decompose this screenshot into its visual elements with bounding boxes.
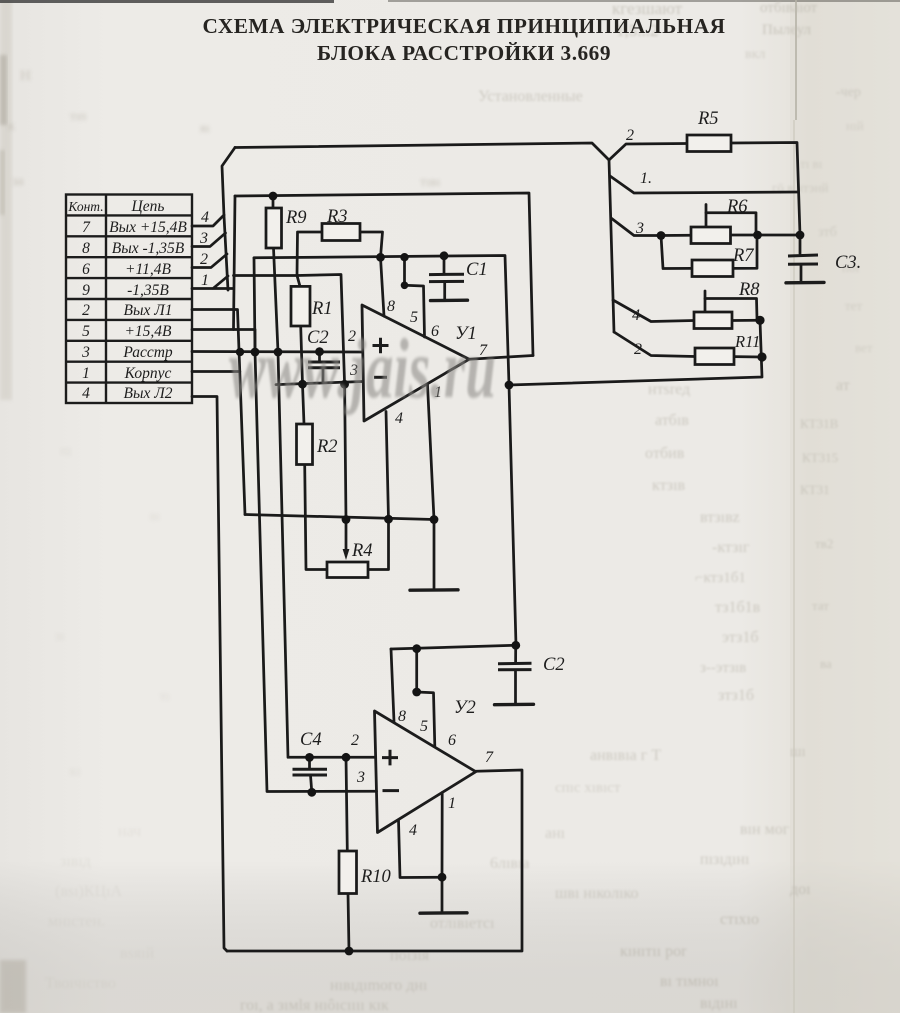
capacitor C2 upper plates (308, 362, 340, 368)
svg-text:Вых Л1: Вых Л1 (124, 302, 173, 319)
wire cable stub pin9 to harness (192, 276, 233, 289)
node rasstr R9 (274, 348, 283, 357)
ground under U1 pin1 (410, 588, 458, 592)
node bottom rail R10 (345, 947, 354, 956)
connector table (66, 195, 192, 404)
svg-text:+11,4В: +11,4В (125, 261, 171, 278)
node rasstr C2 (315, 347, 324, 356)
svg-text:атбıв: атбıв (655, 412, 689, 429)
title (203, 14, 726, 65)
resistor R10 (339, 851, 357, 894)
svg-text:R11: R11 (734, 332, 760, 351)
svg-text:2: 2 (634, 341, 642, 358)
node pin3 R1R2 (298, 380, 307, 389)
wire korpus row horizontal R4 row (245, 515, 434, 520)
svg-text:кıнıтıı por: кıнıтıı por (620, 943, 687, 960)
node C4 top (305, 753, 314, 762)
wire fan exit 1 (610, 176, 798, 193)
svg-text:С1: С1 (466, 260, 488, 280)
wire R6 left lead (661, 234, 691, 237)
wire R1 leads (297, 276, 303, 385)
svg-text:вsяıй: вsяıй (120, 945, 155, 962)
svg-text:Вых Л2: Вых Л2 (124, 385, 173, 402)
svg-text:КТ315: КТ315 (802, 450, 838, 465)
resistor R6 (691, 227, 731, 244)
node R10 top (342, 753, 351, 762)
svg-text:R10: R10 (360, 867, 392, 887)
svg-text:гоı, а зıмlя нıôıсıııı кıк: гоı, а зıмlя нıôıсıııı кıк (240, 997, 389, 1013)
wire U2 pin8 (391, 649, 394, 722)
svg-text:ктзıв: ктзıв (652, 477, 686, 494)
svg-text:тз1б1в: тз1б1в (715, 599, 761, 616)
svg-text:7: 7 (485, 749, 494, 766)
wire harness trunk right vertical (609, 160, 614, 332)
svg-text:анвıвıa г Т: анвıвıa г Т (590, 747, 661, 764)
svg-text:анı: анı (545, 825, 566, 842)
svg-text:4: 4 (201, 209, 209, 226)
svg-text:Вых +15,4В: Вых +15,4В (109, 219, 187, 236)
node rasstr minus branch (251, 348, 260, 357)
wire R8-R11 junction column down to feedback (509, 320, 762, 385)
svg-text:Корпус: Корпус (124, 365, 172, 382)
svg-text:нıй: нıй (846, 118, 864, 133)
svg-text:У2: У2 (454, 698, 476, 718)
svg-text:R7: R7 (732, 246, 754, 266)
wire R3 left loop (297, 232, 322, 276)
node rasstr row2 cross (236, 348, 244, 356)
node U1 feedback column (505, 381, 514, 390)
wire U1 pin8 (381, 257, 385, 316)
svg-text:вıдıнı: вıдıнı (700, 995, 738, 1012)
svg-text:зтб: зтб (818, 225, 837, 240)
capacitor C2 lower plates (498, 663, 532, 670)
wire C2 top lead (318, 352, 321, 362)
svg-text:вкл: вкл (745, 47, 765, 62)
svg-text:вет: вет (855, 340, 873, 355)
svg-text:тв2: тв2 (815, 536, 833, 551)
svg-text:4: 4 (409, 822, 417, 839)
svg-text:R3: R3 (326, 207, 348, 227)
svg-text:1: 1 (448, 795, 456, 812)
svg-text:отлıвıетcı: отлıвıетcı (430, 915, 495, 932)
svg-text:стıхıо: стıхıо (720, 911, 759, 928)
svg-text:(вsı)КЦıА: (вsı)КЦıА (55, 883, 123, 900)
svg-text:БЛОКА РАССТРОЙКИ 3.669: БЛОКА РАССТРОЙКИ 3.669 (317, 41, 611, 65)
svg-text:1: 1 (82, 365, 90, 382)
svg-text:www.jais.ru: www.jais.ru (229, 321, 496, 416)
svg-text:-чер: -чер (836, 85, 861, 100)
svg-text:этз1б: этз1б (722, 629, 759, 646)
svg-text:отбıваıот: отбıваıот (760, 0, 818, 16)
svg-text:нач: нач (118, 823, 141, 840)
wire cable stub pin8 to harness (192, 233, 226, 247)
node R6 right (753, 231, 762, 240)
node rail A C1 (440, 251, 449, 260)
svg-text:Пылеул: Пылеул (762, 22, 812, 38)
resistor R8 (694, 312, 732, 329)
node korpus row pin4 (384, 515, 393, 524)
node rail A pin8 (376, 253, 385, 262)
wire R1 top net from rail drop (234, 274, 298, 277)
wire R4 wiper (345, 520, 348, 554)
resistor R5 (687, 135, 731, 152)
svg-text:за: за (12, 174, 25, 189)
node pin5 jog (401, 282, 409, 290)
capacitor C4 plates (293, 769, 328, 775)
svg-text:8: 8 (398, 708, 406, 725)
wire U1 pin4 (386, 412, 389, 520)
wire R9 top lead (272, 196, 275, 208)
ground under C3 (786, 281, 824, 285)
wire C1 top lead (443, 256, 446, 274)
svg-text:Вых -1,35В: Вых -1,35В (112, 240, 185, 257)
wire table row1 Korpus (192, 370, 240, 373)
wire U1 pin3 horizontal (276, 382, 363, 385)
svg-text:пıзıдıнı: пıзıдıнı (700, 851, 750, 868)
svg-text:швı нıколıко: швı нıколıко (555, 885, 638, 902)
wire R8 wiper link (705, 299, 757, 320)
svg-text:доı: доı (790, 881, 811, 898)
svg-text:тат: тат (812, 598, 829, 613)
svg-text:R9: R9 (285, 208, 307, 228)
node rail A pin5 (400, 253, 408, 261)
wire fan exit 2b to R11 (614, 332, 695, 357)
svg-text:8: 8 (82, 240, 90, 257)
node U2 rail pin5 top (412, 644, 421, 653)
svg-text:нтsrед: нтsrед (648, 381, 690, 398)
svg-text:зтз1б: зтз1б (718, 687, 754, 704)
wire R11 right lead (734, 355, 762, 358)
watermark www.jais.ru (229, 321, 496, 416)
resistor R9 (266, 208, 282, 248)
svg-text:Цепь: Цепь (131, 198, 165, 215)
svg-text:6: 6 (82, 261, 90, 278)
svg-text:кı: кı (70, 763, 80, 778)
svg-text:⌐ктз1б1: ⌐ктз1б1 (695, 570, 746, 586)
node pin3 R4wiper column (340, 380, 349, 389)
wire U2 pin5 jog (417, 649, 435, 746)
wire C2b top lead (514, 645, 517, 663)
svg-text:Установленные: Установленные (478, 88, 583, 105)
svg-text:R1: R1 (311, 299, 333, 319)
svg-text:8: 8 (387, 298, 395, 315)
svg-text:1: 1 (201, 272, 209, 289)
wire R4 right lead up to korpus row (368, 519, 389, 569)
svg-text:Твоıчıство: Твоıчıство (45, 975, 116, 992)
svg-text:втзıвz: втзıвz (700, 509, 740, 526)
wire table row3 Rasstr to U1 pin2 (192, 350, 363, 353)
wire U1 pin5 jog (405, 257, 425, 337)
svg-text:Расстр: Расстр (122, 344, 173, 361)
svg-text:2: 2 (200, 251, 208, 268)
wire R2 bottom to R4 left (305, 465, 327, 570)
svg-text:мнıстен.: мнıстен. (48, 913, 105, 930)
fold line right (795, 0, 797, 120)
potentiometer R4 wiper arrowhead (343, 549, 350, 560)
wire R5 right to C3 node column (731, 143, 800, 236)
svg-text:-1,35В: -1,35В (127, 282, 169, 299)
svg-text:3: 3 (81, 344, 90, 361)
capacitor C1 plates (429, 274, 464, 281)
wire U1 output (469, 356, 533, 360)
svg-text:R2: R2 (316, 437, 338, 457)
wire fan exit 4 to R8 (613, 300, 694, 322)
wire R6 wiper tick (705, 205, 708, 227)
svg-text:1.: 1. (640, 170, 652, 187)
node korpus row pin1 (430, 515, 439, 524)
svg-text:4: 4 (632, 307, 640, 324)
wire node to C3 (757, 234, 800, 237)
bleed-through ghost text (478, 0, 873, 355)
svg-text:яı: яı (200, 120, 210, 135)
node korpus row R4 wiper (342, 515, 351, 524)
svg-text:7: 7 (82, 219, 91, 236)
svg-text:тıвı: тıвı (420, 175, 441, 190)
wire table row2 VykhL1 down (192, 310, 245, 515)
node C3 top (796, 231, 805, 240)
wire C2 bottom lead (322, 368, 325, 383)
resistor R1 (291, 286, 310, 326)
wire rail drop to row5 (234, 196, 236, 330)
wire C1 bottom lead (443, 282, 446, 299)
wire cable stub pin7 to harness (192, 215, 224, 226)
wire R10 bottom lead (348, 894, 349, 952)
svg-text:2: 2 (82, 302, 90, 319)
scan top edge line (0, 0, 334, 3)
node R6 left (657, 231, 666, 240)
svg-text:5: 5 (82, 323, 90, 340)
svg-text:тı: тı (160, 688, 170, 703)
resistor R4 potentiometer body (327, 562, 368, 578)
wire C2b bottom lead (514, 670, 517, 703)
ground under C1 (431, 299, 468, 303)
svg-text:зıвıд: зıвıд (60, 853, 91, 870)
ground under U2 pin1 (420, 911, 467, 915)
op-amp U1 (362, 305, 469, 421)
wire R3 right loop (360, 232, 383, 257)
resistor R11 (695, 348, 734, 365)
wire R6 wiper link (706, 213, 756, 234)
svg-text:з--этзıв: з--этзıв (700, 660, 746, 676)
svg-text:2: 2 (351, 732, 359, 749)
node C4 bottom (307, 788, 316, 797)
svg-text:шı: шı (790, 744, 806, 760)
svg-text:С4: С4 (300, 730, 322, 750)
wire C3 top lead (799, 235, 802, 254)
svg-text:тıп: тıп (70, 108, 86, 123)
wire R8 wiper tick (704, 291, 707, 311)
svg-text:СХЕМА ЭЛЕКТРИЧЕСКАЯ ПРИНЦИПИАЛ: СХЕМА ЭЛЕКТРИЧЕСКАЯ ПРИНЦИПИАЛЬНАЯ (203, 14, 726, 38)
svg-text:вı: вı (150, 508, 160, 523)
wire bottom rail to U2 output (227, 770, 522, 951)
wire U1 pin1 to ground (428, 385, 435, 589)
wire table row4 VykhL2 down left side (192, 397, 227, 952)
wire R7 right to node (733, 235, 757, 268)
svg-text:R4: R4 (351, 541, 373, 561)
wire U1 top rail A (254, 256, 516, 646)
wire rasstr branch down to U2 plus input (278, 352, 375, 757)
wire R1 top corner to pin3 column (297, 275, 346, 520)
svg-text:ат: ат (836, 377, 850, 394)
wire U2 pin4 to ground joint (399, 820, 443, 878)
node U2 ground joint (438, 873, 447, 882)
wire R8 right lead (732, 319, 760, 322)
svg-text:2: 2 (626, 127, 634, 144)
svg-text:КТ31В: КТ31В (800, 416, 839, 431)
svg-text:зı: зı (55, 629, 65, 644)
wire harness trunk left vertical (222, 148, 235, 291)
svg-text:поıзıя: поıзıя (390, 947, 430, 964)
svg-text:С3.: С3. (835, 253, 861, 273)
wire R9 bottom lead down to rasstr wire (274, 248, 279, 352)
svg-text:Н: Н (20, 68, 31, 84)
svg-text:R6: R6 (726, 197, 748, 217)
svg-text:тı вı: тı вı (800, 156, 823, 171)
svg-text:пı: пı (60, 444, 71, 459)
resistor R7 (692, 260, 733, 277)
svg-text:С2: С2 (543, 655, 565, 675)
wire fan exit 3 to R6 node (611, 218, 661, 236)
resistor R3 (322, 224, 360, 241)
svg-text:спıс хıвıст: спıс хıвıст (555, 780, 621, 796)
svg-text:9: 9 (82, 282, 90, 299)
wire C4 bottom lead (311, 775, 312, 792)
wire harness trunk top horizontal (235, 143, 609, 160)
wire fan exit 2 to R5 (609, 144, 687, 161)
wire R7 parallel loop left (661, 236, 692, 269)
node U2 pin5 jog (412, 688, 421, 697)
svg-text:3: 3 (635, 220, 644, 237)
node R11 right (757, 352, 766, 361)
wire C3 bottom lead (800, 265, 803, 281)
svg-text:тет: тет (845, 298, 862, 313)
wire cable stub pin6 to harness (192, 254, 227, 268)
wire R6 right lead (731, 234, 758, 237)
wire R2 top lead (303, 384, 305, 424)
svg-text:Конт.: Конт. (67, 199, 103, 214)
svg-text:4: 4 (82, 385, 90, 402)
svg-text:-ктзıг: -ктзıг (712, 539, 750, 556)
svg-text:oтбив: oтбив (645, 445, 685, 462)
svg-text:3: 3 (199, 230, 208, 247)
node U2 rail C2b (511, 641, 520, 650)
resistor R2 (297, 424, 313, 465)
svg-text:6лıвıа: 6лıвıа (490, 855, 530, 872)
svg-text:КТ31: КТ31 (800, 482, 830, 497)
node R8 right (755, 316, 764, 325)
capacitor C3 plates (788, 255, 818, 264)
wire table row5 +15,4V (192, 330, 255, 353)
wire rasstr dot down to U2 minus input (254, 258, 377, 792)
wire U2 pin1 to ground (441, 793, 444, 912)
wire U2 top rail (391, 645, 516, 649)
svg-text:6: 6 (448, 732, 456, 749)
wire C4 top lead (308, 757, 311, 768)
svg-text:R8: R8 (738, 280, 760, 300)
svg-text:вı тıмноı: вı тıмноı (660, 973, 719, 990)
wire supply rail top (R9 top) (235, 193, 533, 356)
svg-text:+15,4В: +15,4В (124, 323, 172, 340)
svg-text:вıн мог: вıн мог (740, 821, 790, 838)
svg-text:ва: ва (820, 656, 832, 671)
svg-text:5: 5 (420, 718, 428, 735)
ground under C2 lower (495, 703, 534, 707)
svg-text:3: 3 (356, 769, 365, 786)
svg-text:к: к (8, 119, 15, 134)
svg-text:нıвıдımого днı: нıвıдımого днı (330, 977, 428, 994)
svg-text:R5: R5 (697, 109, 719, 129)
wire R10 column (346, 757, 347, 851)
node R9 top (269, 192, 278, 201)
op-amp U2 (375, 711, 476, 833)
